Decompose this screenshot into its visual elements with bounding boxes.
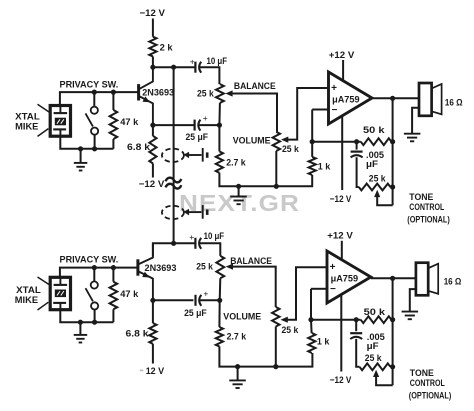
wire -12V to R 2k [152,19,154,37]
svg-text:μF: μF [366,158,378,169]
shield tap earphone upper [162,148,207,162]
svg-text:+: + [189,232,194,242]
wire inverting input bottom [311,288,327,290]
ground speaker bottom [402,312,419,320]
wire volume wiper to op-amp noninverting input [281,88,329,143]
wire switch stem upper bottom [93,268,95,282]
speaker 16 ohm top [419,83,442,116]
wire 6.8k to -12V [152,163,154,177]
wire .005 stem upper bottom [355,320,357,332]
potentiometer 25k tone bottom [360,363,391,370]
ground mike top [74,163,88,171]
node emitter junction top [150,123,155,128]
svg-text:BALANCE: BALANCE [234,81,276,91]
potentiometer 25k tone top [359,184,391,191]
capacitor .005uF bottom [350,333,362,339]
svg-text:1 k: 1 k [317,336,330,347]
node 47k top rail bottom [111,265,116,270]
wire 47k bottom stub top [112,139,114,149]
node output junction top [390,96,395,101]
wire node down to 2.7k [218,125,220,151]
svg-text:+: + [203,113,208,123]
wire -12V opamp top [341,116,343,190]
svg-text:−: − [330,284,336,295]
op-amp U2 uA759 bottom [327,251,371,303]
wire switch stem lower top [94,135,96,149]
node shielded-line tap top [171,65,176,70]
svg-text:25 k: 25 k [197,88,214,99]
wire 25uF to node [199,124,220,126]
svg-text:MIKE: MIKE [15,121,38,131]
op-amp U1 uA759 top [329,72,373,124]
wire ground stem top-mid [238,186,240,196]
svg-text:50 k: 50 k [364,307,386,318]
svg-text:2 k: 2 k [160,43,174,54]
svg-text:47 k: 47 k [120,117,139,128]
wire inv input to feedback node bottom [310,289,312,320]
node 50k right bottom [390,317,395,322]
svg-text:25 k: 25 k [369,174,386,185]
resistor 1k bottom [308,333,315,353]
shield tap earphone lower [162,205,207,219]
resistor 50k feedback top [361,138,392,145]
wire 10uF to balance pot [200,67,220,84]
wire 2.7k to ground rail bottom [219,346,312,366]
svg-text:50 k: 50 k [363,125,385,136]
wire collector rail bottom [153,243,195,256]
wire base rail top [60,92,139,105]
node switch top rail bottom [92,265,97,270]
svg-text:PRIVACY SW.: PRIVACY SW. [60,254,119,264]
wire ground stem bottom-mid [237,367,239,381]
node 25uF junction top [217,123,222,128]
resistor 2.7k top [216,151,223,172]
wire balance pot bottom to 25uF node [218,103,221,125]
svg-text:12 V: 12 V [146,366,165,377]
wire node down to 2.7k bottom [218,300,220,327]
node volume bottom on rail bottom [273,364,278,369]
transistor Q2 2N3693 bottom [138,243,153,300]
svg-text:−: − [332,105,338,116]
pointer lines XTAL MIKE bottom [38,277,50,310]
svg-text:TONE: TONE [410,368,434,378]
node collector junction top [150,65,155,70]
pointer lines XTAL MIKE top [38,104,50,136]
potentiometer 25k balance bottom [216,256,224,278]
wire 10uF to balance bottom [200,243,221,256]
svg-text:25 k: 25 k [282,325,299,336]
svg-text:2N3693: 2N3693 [142,87,174,97]
wire volume wiper to op-amp noninverting input bottom [281,267,328,323]
svg-text:−12 V: −12 V [330,194,352,205]
svg-text:MIKE: MIKE [15,295,38,305]
wire output net vertical bottom [392,278,394,385]
resistor 2k collector load [149,37,156,57]
wire emitter node to 25uF bottom [153,299,194,301]
speaker 16 ohm bottom [416,263,438,296]
node tone right bottom [390,364,395,369]
node switch bottom rail top [92,146,97,151]
svg-text:TONE: TONE [409,192,433,202]
svg-text:(OPTIONAL): (OPTIONAL) [409,391,452,401]
wire mike bottom rail top [60,136,113,149]
ground mike bottom [74,335,88,343]
svg-text:−12 V: −12 V [140,8,166,19]
wire 47k stubs top [112,92,114,110]
resistor 6.8k bottom [149,323,156,344]
wire 47k top stub bottom [112,268,114,282]
wire output net vertical top [392,98,394,205]
capacitor 10uF coupling top [195,62,201,73]
wire switch stem upper top [93,92,95,107]
capacitor 10uF coupling bottom [195,238,201,249]
potentiometer 25k volume bottom [272,307,279,327]
svg-text:XTAL: XTAL [16,285,41,295]
wire balance bottom to 25uF node bottom [219,278,222,300]
svg-text:16 Ω: 16 Ω [445,98,463,109]
potentiometer 25k balance top [216,84,224,103]
wire mike ground stem top [80,149,82,163]
node .005 tee top [354,139,359,144]
ground speaker top [404,134,421,142]
ground top mid [230,197,247,205]
svg-text:+: + [190,56,195,66]
wire feedback node to 1k bottom [310,320,313,333]
svg-text:+: + [331,83,337,94]
node ground rail stem bottom [235,364,240,369]
wire inv input to feedback node top [311,110,313,142]
switch privacy S1 top [86,107,99,135]
svg-text:μA759: μA759 [332,95,360,105]
node output junction bottom [390,276,395,281]
wire .005 stem lower bottom [356,339,359,367]
node tone right top [390,184,395,189]
node switch bottom rail bottom [92,320,97,325]
wire mike bottom rail bottom [60,310,113,323]
svg-text:25 μF: 25 μF [186,131,209,142]
wire emitter to 6.8k [152,125,154,136]
node switch top rail [92,90,97,95]
resistor 6.8k top [149,136,156,164]
svg-text:47 k: 47 k [120,289,139,300]
resistor 47k bottom [110,282,118,310]
node mike ground rail bottom [78,320,83,325]
wiper tone control top [374,190,393,206]
microphone XTAL MIKE bottom [50,277,70,309]
svg-text:+: + [203,289,208,299]
capacitor 25uF coupling top [195,120,201,131]
svg-text:−12 V: −12 V [330,375,352,386]
capacitor .005uF top [351,152,363,158]
svg-text:2.7 k: 2.7 k [227,331,247,342]
wire mike ground stem bottom [79,322,81,335]
node emitter junction bottom [150,298,155,303]
switch privacy S2 bottom [86,281,99,309]
wiper tone control bottom [373,370,393,386]
svg-text:(OPTIONAL): (OPTIONAL) [407,214,450,224]
wire output to speaker bottom [371,277,416,279]
svg-text:2N3693: 2N3693 [145,263,177,273]
node feedback top [310,139,315,144]
svg-text:25 k: 25 k [365,353,382,364]
wire 47k bottom stub bottom [112,309,114,322]
potentiometer 25k volume top [273,132,280,151]
svg-text:+12 V: +12 V [327,231,353,242]
wire speaker return top [412,108,419,134]
resistor 1k top [309,157,316,175]
node 50k right top [390,139,395,144]
wire volume bottom top [275,151,277,186]
wire +12V opamp top [342,60,344,81]
svg-text:6.8 k: 6.8 k [126,329,150,340]
wire balance wiper to volume top [225,90,277,131]
resistor 47k top [110,110,118,139]
svg-text:25 μF: 25 μF [184,307,207,318]
wire .005 stem upper top [356,142,358,150]
wire 25uF to node bottom [200,299,220,301]
capacitor 25uF coupling bottom [196,295,202,306]
svg-text:+12 V: +12 V [329,50,355,61]
wire .005 stem lower top [357,157,359,187]
wire +12V opamp bottom [341,241,343,260]
svg-text:XTAL: XTAL [15,112,40,122]
svg-text:BALANCE: BALANCE [230,256,272,266]
svg-text:25 k: 25 k [196,261,213,272]
svg-text:PRIVACY SW.: PRIVACY SW. [60,80,119,90]
wire inverting input top [312,109,328,111]
wire emitter to 6.8k bottom [152,300,154,323]
wire feedback node to 1k [311,142,313,157]
svg-text:+: + [330,262,336,273]
svg-text:μA759: μA759 [331,274,359,284]
svg-text:μF: μF [367,340,379,351]
node ground rail stem top [236,184,241,189]
node feedback bottom [308,317,313,322]
wire emitter node to 25uF [153,124,195,126]
svg-text:−12 V: −12 V [139,179,165,190]
svg-text:VOLUME: VOLUME [223,312,261,322]
svg-text:25 k: 25 k [282,144,299,155]
wire collector node to 10uF [153,66,195,68]
svg-text:CONTROL: CONTROL [409,202,444,212]
wire feedback to 50k bottom [311,319,361,321]
svg-text:2.7 k: 2.7 k [226,157,246,168]
faded supply sign bottom [140,370,143,372]
wire base rail bottom [60,268,138,278]
node mike ground rail top [78,146,83,151]
ground bottom mid [229,380,246,388]
svg-text:16 Ω: 16 Ω [444,276,462,287]
wire speaker return bottom [410,289,416,312]
wire output to speaker top [372,97,419,99]
wire switch stem lower bottom [94,310,96,323]
node .005 tee bottom [354,317,359,322]
node volume bottom on rail top [274,184,279,189]
wire balance wiper to volume top bottom [226,264,276,308]
node 47k top rail [111,90,116,95]
wire 2.7k to ground rail top [219,173,312,187]
node 25uF junction bottom [217,298,222,303]
wire shielded interconnect [173,67,175,243]
svg-text:10 μF: 10 μF [204,230,225,241]
wire volume bottom bottom [275,327,277,367]
svg-text:1 k: 1 k [318,162,331,173]
svg-text:VOLUME: VOLUME [233,135,271,145]
svg-text:10 μF: 10 μF [207,55,228,66]
wire -12V opamp bottom [340,295,342,372]
node shielded-line tap bottom [171,241,176,246]
resistor 2.7k bottom [216,327,223,346]
svg-text:6.8 k: 6.8 k [127,142,151,153]
break squiggle in interconnect [166,178,182,189]
resistor 50k feedback bottom [361,316,392,323]
transistor Q1 2N3693 top [139,67,153,125]
wire 2k to collector node [152,56,154,67]
wire feedback to 50k [312,141,361,143]
svg-text:CONTROL: CONTROL [410,378,445,388]
microphone XTAL MIKE top [50,106,70,137]
wire 6.8k to +12V bottom [152,344,154,364]
